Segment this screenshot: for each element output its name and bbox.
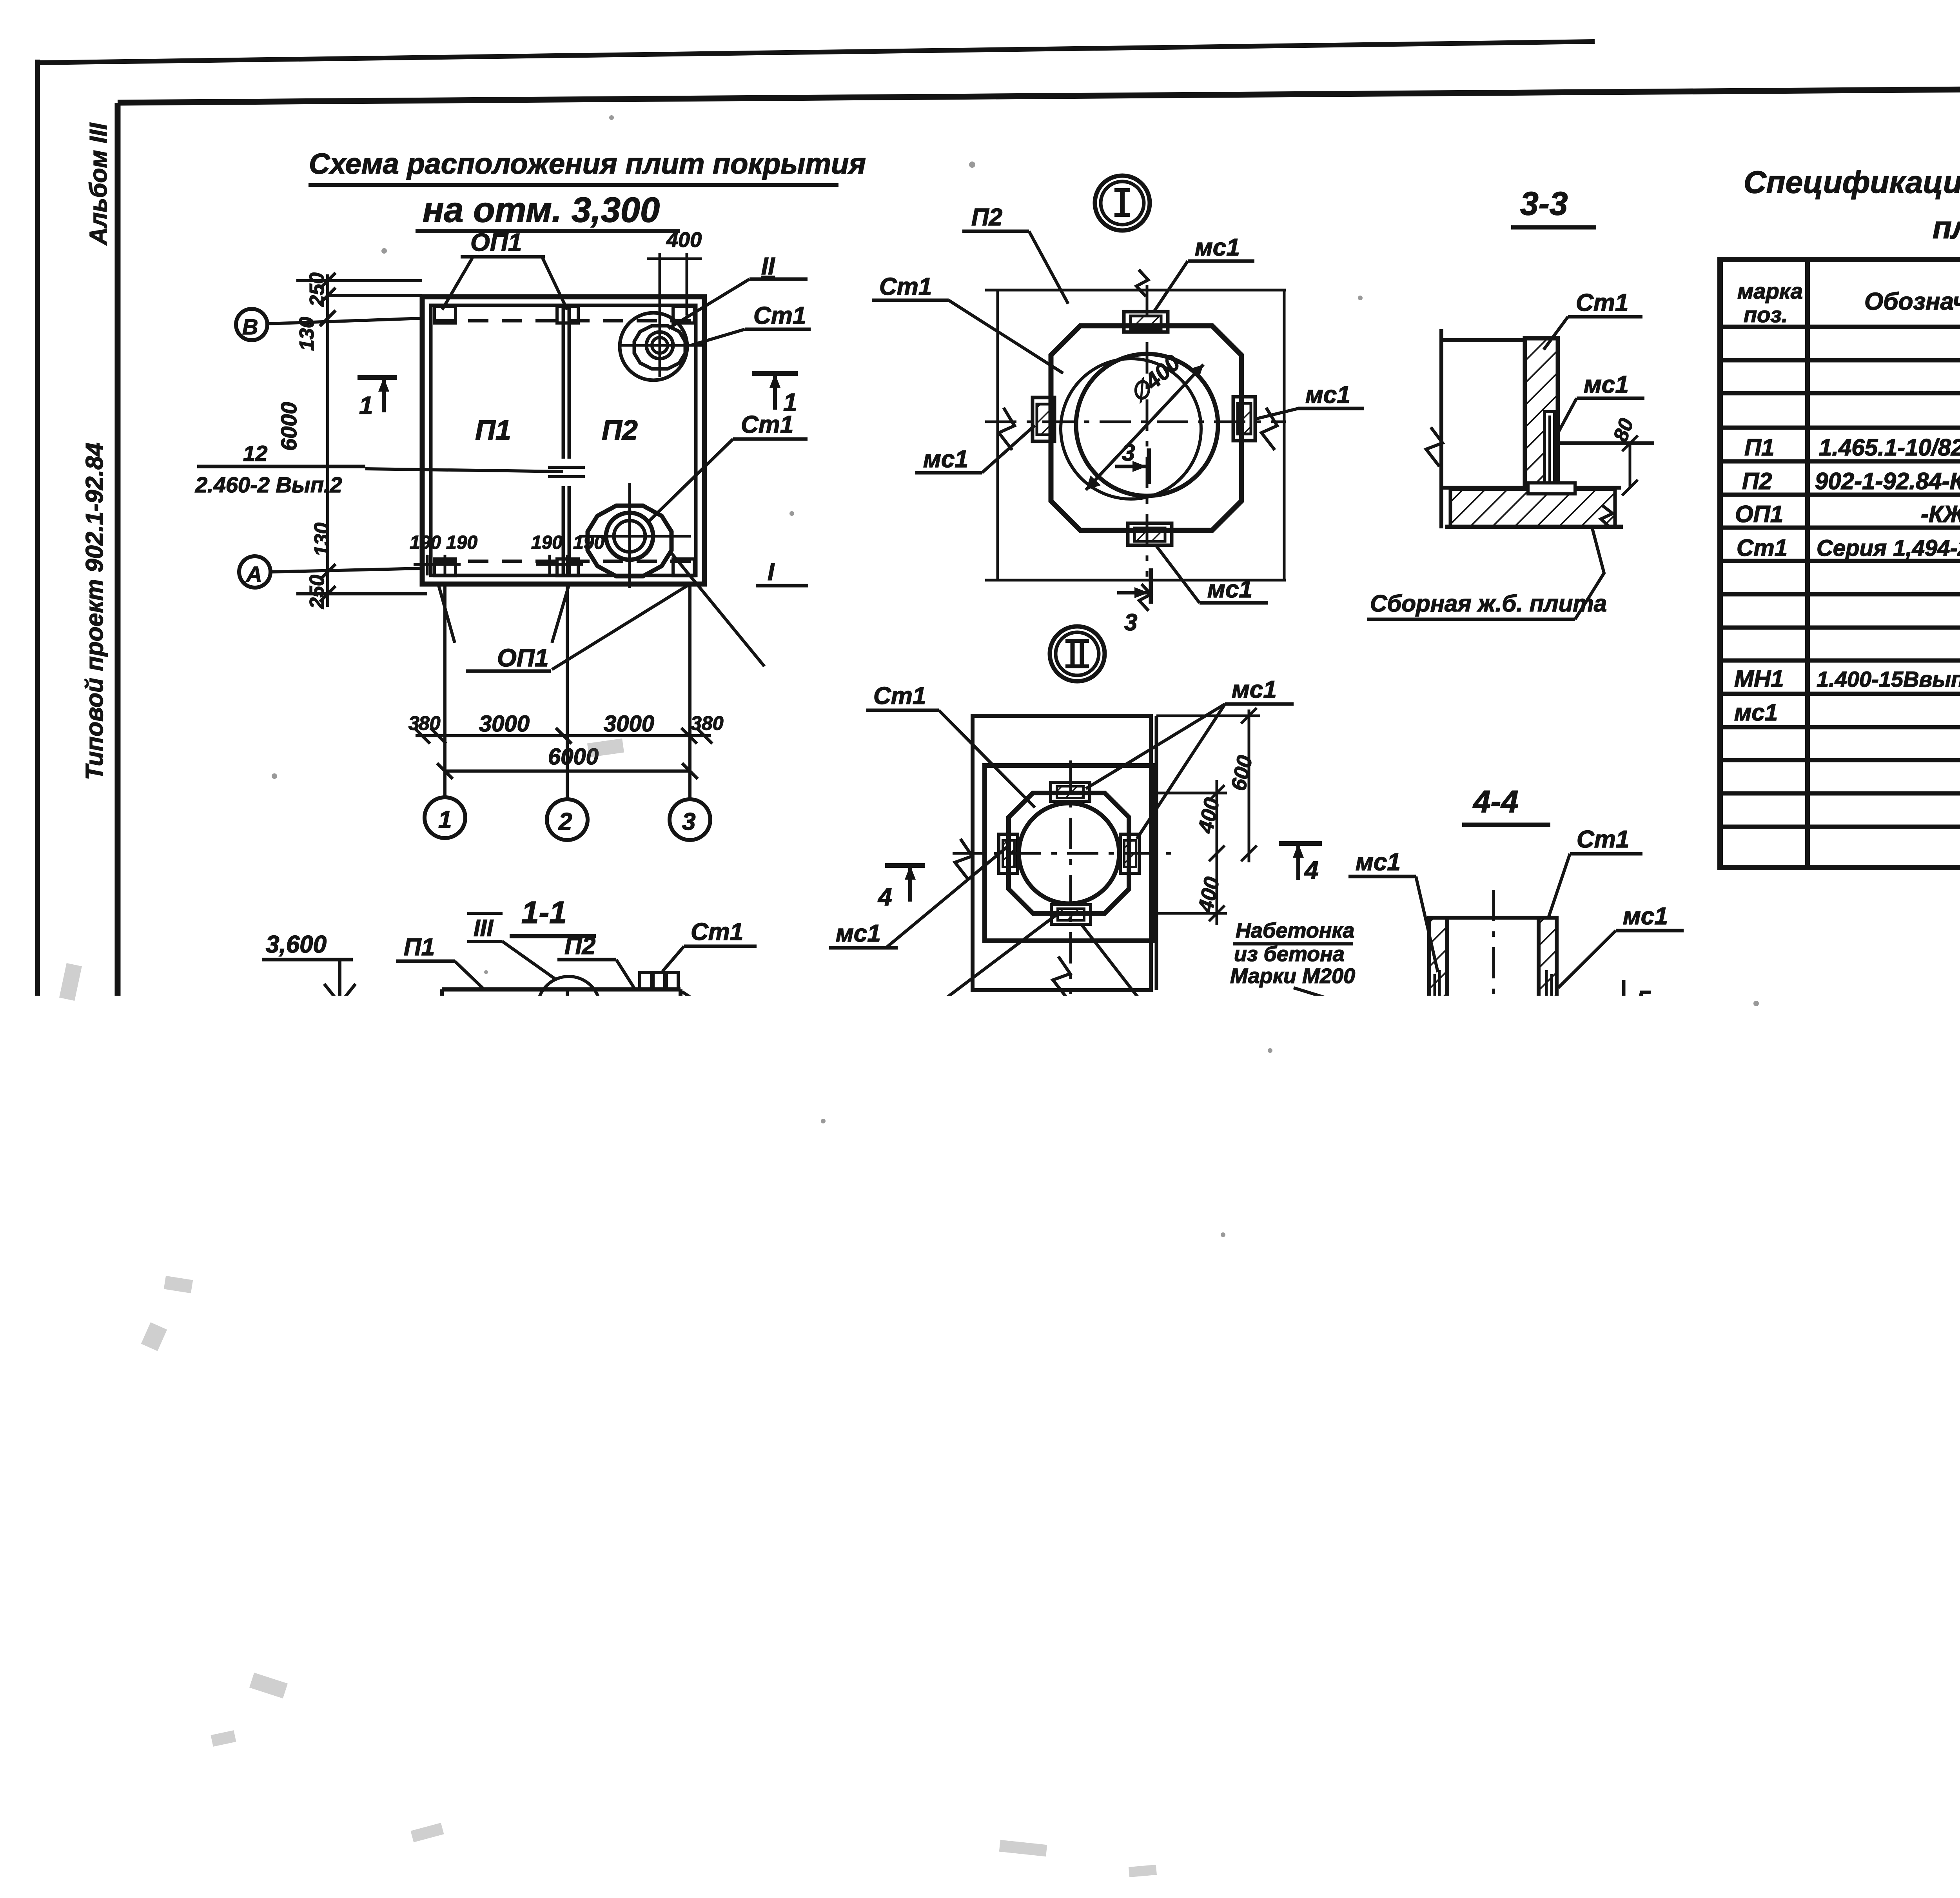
5-5 break mark	[1388, 1570, 1432, 1603]
svg-text:Ст1: Ст1	[691, 918, 743, 945]
svg-text:из бетона: из бетона	[1234, 942, 1345, 966]
III support top line	[277, 1492, 605, 1496]
svg-text:Смирнова: Смирнова	[71, 1146, 87, 1221]
1-1 joint lines	[566, 989, 569, 1055]
svg-text:мс1: мс1	[836, 920, 881, 947]
detail I section mark 3 upper	[1147, 448, 1151, 484]
axis B line	[267, 318, 422, 324]
svg-text:П1: П1	[220, 1314, 250, 1341]
svg-text:Ст1: Ст1	[1577, 826, 1629, 853]
svg-text:Ст1: Ст1	[1576, 289, 1628, 316]
svg-text:190: 190	[446, 532, 477, 553]
svg-text:20: 20	[1544, 1434, 1565, 1454]
detail II circle	[1019, 803, 1119, 904]
detail II circled mark	[1050, 626, 1105, 681]
5-5 right dims	[1609, 1401, 1612, 1581]
outer border top line	[38, 42, 1595, 63]
2-2 dash-dot diagonals in wall	[862, 1505, 941, 1560]
3-3 stakan column hatched	[1525, 338, 1558, 488]
inner frame left	[115, 103, 121, 1805]
svg-text:4: 4	[877, 883, 892, 911]
svg-text:190: 190	[361, 1655, 397, 1679]
detail II centerline vertical	[1069, 760, 1072, 994]
table outer rect	[1720, 259, 1960, 867]
left dim extension top	[296, 279, 422, 282]
svg-text:1-1: 1-1	[521, 895, 567, 930]
leaders from bottom pads down	[438, 584, 455, 643]
detail I centerline horizontal	[985, 421, 1286, 423]
svg-text:3: 3	[1124, 609, 1137, 635]
svg-text:3,600: 3,600	[266, 931, 327, 958]
2-2 dims bottom	[892, 1693, 1011, 1696]
stakan ST1 bottom-right octagon	[588, 506, 671, 576]
detail I section mark 3 lower	[1149, 568, 1153, 604]
svg-text:Инв.N°: Инв.N°	[1450, 1800, 1519, 1823]
svg-text:мс1: мс1	[1232, 676, 1277, 703]
4-4 dim 100 right	[1664, 1007, 1667, 1040]
svg-text:Обозначение: Обозначение	[1864, 288, 1960, 315]
1-1 axis circle 1	[424, 1208, 463, 1247]
svg-text:400: 400	[1351, 1313, 1388, 1337]
axis circle 1	[425, 797, 465, 838]
svg-text:Серия 1,494-24 Вып.1: Серия 1,494-24 Вып.1	[1817, 535, 1960, 561]
1-1 dim line 3000 3000	[442, 1185, 687, 1188]
bearing pad OP1 top 3	[673, 306, 694, 323]
title block verticals left section	[1793, 1593, 1797, 1825]
left dim vertical line	[326, 274, 329, 607]
5-5 embedded plate left	[1345, 1472, 1370, 1504]
1-1 axis circle 2	[552, 1209, 592, 1248]
svg-text:мс1: мс1	[1170, 1002, 1215, 1029]
2-2 axis circle V	[933, 1751, 973, 1790]
2-2 pad plate OP1	[921, 1492, 998, 1497]
5-5 centerlines	[1207, 1487, 1579, 1490]
svg-text:260: 260	[1429, 1363, 1466, 1388]
1-1 bolts mc on top right	[640, 973, 652, 989]
5-5 dim 400 400 top	[1329, 1338, 1499, 1341]
svg-text:П1: П1	[475, 415, 511, 446]
svg-text:130: 130	[296, 317, 318, 351]
III support walls	[345, 1494, 349, 1629]
svg-text:Ст1: Ст1	[753, 302, 806, 329]
svg-text:Подпись и дата: Подпись и дата	[69, 1559, 87, 1686]
svg-text:на отм. 3,300: на отм. 3,300	[423, 191, 660, 230]
stakan bottom-right crosshair	[579, 535, 691, 538]
svg-text:Ст.инж.: Ст.инж.	[1725, 1771, 1796, 1790]
table row lines	[1720, 358, 1960, 363]
svg-text:3,300: 3,300	[262, 1037, 323, 1064]
detail I plate octagon	[1051, 326, 1241, 530]
axis A line	[270, 568, 422, 572]
axis drop lines	[443, 584, 446, 797]
svg-text:из бетона марки: из бетона марки	[1049, 1656, 1249, 1682]
detail II centerline horizontal	[953, 852, 1176, 855]
3-3 pad plate under column	[1528, 483, 1575, 494]
detail II stakan square	[985, 766, 1153, 941]
svg-text:2-2: 2-2	[925, 1218, 971, 1253]
5-5 plate outline	[1327, 1352, 1331, 1581]
svg-text:П2: П2	[971, 204, 1002, 231]
svg-text:В: В	[944, 1760, 961, 1786]
inner frame bottom	[118, 1804, 1960, 1825]
2-2 slab end tick	[1109, 1355, 1112, 1409]
stakan bottom-right circles	[606, 513, 653, 560]
svg-text:1: 1	[437, 1216, 450, 1243]
bearing pad OP1 bottom 2	[557, 559, 578, 576]
detail I break marks	[999, 408, 1014, 450]
svg-text:3: 3	[678, 1216, 691, 1243]
III slab end ticks	[273, 1352, 276, 1392]
2-2 centerline	[951, 1395, 954, 1751]
3-3 topping slab right	[1558, 441, 1654, 445]
svg-text:ОП1: ОП1	[470, 228, 522, 256]
1-1 axis circle 3	[666, 1208, 705, 1247]
joint break equal marks	[548, 466, 585, 469]
svg-text:400: 400	[666, 228, 702, 252]
detail II break marks	[955, 839, 972, 880]
detail I clip bottom	[1128, 523, 1172, 545]
name rows lines	[1722, 1715, 1960, 1718]
svg-text:2.460-2 Вып.2: 2.460-2 Вып.2	[195, 472, 342, 497]
3-3 wall left line	[1439, 329, 1443, 528]
1-1 rib underside	[448, 1017, 675, 1055]
4-4 axis drop and circle 3	[1491, 1192, 1494, 1233]
svg-text:Гл.спец: Гл.спец	[1725, 1735, 1791, 1754]
svg-text:3000: 3000	[591, 1158, 643, 1184]
III dim 190 190 bottom	[349, 1681, 504, 1684]
stakan ST1 top-right octagon	[634, 326, 685, 369]
svg-text:Ст1: Ст1	[741, 411, 793, 438]
sidebar signature squiggle	[94, 1171, 118, 1215]
1-1 wall bottom line	[415, 1086, 722, 1090]
III circled mark	[400, 1297, 459, 1357]
svg-text:4-4: 4-4	[1472, 784, 1519, 819]
svg-text:ОП1: ОП1	[584, 1032, 632, 1059]
OP1 top leaders	[442, 258, 472, 310]
detail II clips	[1051, 782, 1090, 801]
axis circle 3	[670, 799, 710, 840]
4-4 centerline	[1492, 890, 1495, 1058]
inner frame top	[118, 85, 1960, 103]
svg-text:Инженер: Инженер	[1725, 1807, 1800, 1826]
bearing pad OP1 top 2	[557, 306, 578, 323]
4-4 slab hatched band	[1404, 1007, 1589, 1040]
2-2 support wall hatched	[851, 1494, 1011, 1633]
detail I clip right	[1233, 397, 1255, 441]
1-1 slab outline	[424, 989, 708, 1088]
detail II dim 400/400 right	[1216, 780, 1218, 925]
svg-text:Типовой проект 902.1-92.84: Типовой проект 902.1-92.84	[81, 443, 108, 780]
svg-text:110: 110	[1464, 1163, 1497, 1186]
svg-text:П2: П2	[1742, 468, 1772, 494]
1-1 joint circle III zone	[537, 976, 600, 1039]
svg-text:П1: П1	[404, 934, 435, 961]
4-4 slab inner void	[1466, 1009, 1525, 1038]
svg-text:130: 130	[971, 1705, 1008, 1729]
svg-text:Ст1: Ст1	[879, 273, 932, 300]
svg-text:110: 110	[1414, 1657, 1447, 1679]
svg-text:1.400-15Ввып.1 110-05: 1.400-15Ввып.1 110-05	[1817, 667, 1960, 691]
svg-text:3000: 3000	[479, 711, 530, 737]
svg-text:Спецификация к схеме располаже: Спецификация к схеме располажения	[1744, 165, 1960, 200]
svg-text:1.465.1-10/82.1-01: 1.465.1-10/82.1-01	[1819, 434, 1960, 461]
svg-text:Группа 08: Группа 08	[68, 1266, 87, 1346]
svg-text:3: 3	[682, 808, 695, 835]
4-4 dim 400 bottom	[1495, 1232, 1590, 1235]
svg-text:80: 80	[419, 712, 441, 734]
bearing pad OP1 bottom 3	[673, 559, 694, 576]
3-3 slab bottom line	[1445, 525, 1623, 529]
3-3 wall top line	[1441, 338, 1525, 342]
3-3 break mark wall	[1426, 427, 1443, 466]
5-5 embedded plate top	[1397, 1420, 1434, 1441]
svg-text:мс1: мс1	[1305, 381, 1350, 408]
4-4 stakan top lines	[1429, 916, 1557, 920]
detail II octagon	[1009, 793, 1129, 913]
section mark 1 right	[752, 371, 798, 376]
2-2 dim 320 left	[793, 1494, 796, 1584]
svg-text:ОП1: ОП1	[497, 644, 548, 672]
bottom dim line row 1	[416, 734, 711, 737]
svg-text:110: 110	[1383, 1657, 1416, 1679]
svg-text:III: III	[474, 915, 494, 941]
left dim extension bottom	[296, 592, 427, 595]
svg-text:I: I	[768, 559, 775, 586]
svg-text:190: 190	[531, 532, 563, 553]
svg-text:Власенко: Власенко	[1799, 1735, 1881, 1754]
svg-text:Ст1: Ст1	[1737, 535, 1788, 561]
svg-text:110: 110	[1507, 1163, 1540, 1186]
plan slab outer square	[422, 297, 704, 584]
plate joint double line	[562, 305, 565, 459]
hidden support dashed line top	[434, 319, 694, 323]
detail II section mark 4 left	[885, 863, 925, 868]
table header bottom	[1720, 325, 1960, 329]
1-1 slab top double line	[442, 987, 681, 992]
1-1 level mark 3.300	[298, 1029, 407, 1032]
svg-text:Инженер: Инженер	[1725, 1789, 1800, 1808]
svg-text:гост5264-80-Т1Δ6: гост5264-80-Т1Δ6	[666, 1271, 835, 1294]
svg-text:12: 12	[243, 441, 267, 466]
3-3 dim 80	[1629, 443, 1632, 488]
5-5 leader from nabetonka	[1265, 1562, 1327, 1631]
svg-text:П2: П2	[619, 1316, 650, 1343]
detail II leader from GOST label	[939, 913, 1058, 1003]
svg-text:3: 3	[691, 712, 702, 734]
table verticals	[1805, 259, 1810, 867]
svg-text:мс1: мс1	[1195, 234, 1240, 261]
svg-text:плит покрытия: плит покрытия	[1933, 210, 1960, 245]
svg-text:2,50: 2,50	[935, 1669, 978, 1693]
detail II label mc1 left (text in sec11 group)	[886, 847, 1007, 948]
3-3 slab top line	[1441, 486, 1621, 490]
5-5 dim 110 110 bottom	[1384, 1581, 1387, 1691]
svg-text:ОП1: ОП1	[810, 1393, 860, 1420]
svg-text:6000: 6000	[276, 402, 301, 451]
III support bottom line	[270, 1627, 613, 1631]
detail II plate right double line	[1155, 716, 1158, 990]
svg-text:мс1: мс1	[1584, 371, 1629, 398]
svg-text:марка: марка	[1737, 279, 1803, 303]
svg-text:40: 40	[1544, 1414, 1565, 1435]
svg-text:МН1: МН1	[1734, 666, 1784, 692]
4-4 anchor bolts	[1438, 970, 1441, 1005]
svg-text:Сокольская: Сокольская	[1799, 1717, 1901, 1736]
detail I circled mark	[1095, 176, 1150, 230]
svg-text:260: 260	[1372, 1363, 1409, 1388]
hidden support dashed line bottom	[434, 560, 694, 563]
plan slab inner square	[431, 305, 696, 575]
svg-text:Тахтамышка: Тахтамышка	[1799, 1753, 1915, 1772]
svg-text:4: 4	[1304, 856, 1319, 884]
2-2 break right	[1092, 1388, 1104, 1410]
svg-text:3: 3	[1588, 1256, 1601, 1283]
svg-text:Рук.гр.: Рук.гр.	[1725, 1753, 1784, 1772]
svg-text:мс1: мс1	[923, 446, 968, 473]
svg-text:П2: П2	[564, 933, 595, 960]
svg-text:В: В	[242, 314, 258, 339]
stakan top-right crosshair	[619, 344, 702, 347]
svg-text:II: II	[761, 253, 775, 280]
svg-text:Привязан: Привязан	[1456, 1703, 1569, 1729]
svg-text:3,600: 3,600	[1365, 1173, 1426, 1200]
svg-text:мс1: мс1	[1207, 576, 1252, 603]
detail I clip top	[1124, 312, 1168, 332]
svg-text:2: 2	[563, 1218, 577, 1245]
svg-text:320: 320	[766, 1518, 789, 1552]
detail II plate rect	[973, 716, 1151, 990]
svg-text:2: 2	[421, 1714, 435, 1741]
detail I diagonal dim line	[1086, 365, 1203, 490]
svg-text:3-3: 3-3	[1520, 185, 1568, 222]
svg-text:80: 80	[702, 712, 724, 734]
svg-text:Взам.инв.N: Взам.инв.N	[69, 1452, 87, 1541]
svg-text:75: 75	[1237, 1499, 1258, 1520]
detail I boundary thin rect	[996, 290, 999, 580]
svg-text:3: 3	[1122, 439, 1135, 466]
svg-text:Нач.отд: Нач.отд	[1725, 1698, 1797, 1718]
2-2 nabetonka step lines	[890, 1502, 894, 1584]
2-2 slab with rib	[961, 1366, 1110, 1490]
5-5 embedded plate center	[1385, 1461, 1439, 1513]
svg-text:3000: 3000	[604, 711, 654, 737]
scan noise patches	[59, 739, 1960, 1877]
detail I centerline vertical	[1146, 285, 1149, 577]
detail I second circle	[1061, 359, 1201, 499]
svg-text:Н.контр: Н.контр	[1725, 1717, 1798, 1736]
svg-text:250: 250	[884, 1705, 920, 1729]
outer border left vertical	[35, 60, 40, 1856]
svg-text:мс1: мс1	[1623, 903, 1668, 930]
axis circle 2	[547, 799, 588, 840]
III left slab	[274, 1362, 426, 1494]
svg-text:ОП1: ОП1	[1735, 501, 1783, 527]
svg-text:мн1: мн1	[1181, 1307, 1227, 1334]
bottom dim line row 2 (6000)	[445, 769, 690, 773]
1-1 break zigzag	[524, 1068, 562, 1088]
svg-text:гост 5264-80-Т1Δ6: гост 5264-80-Т1Δ6	[740, 1002, 901, 1025]
svg-text:выполнить по серии 1.465.1-: выполнить по серии 1.465.1-10/82.0-01у	[1745, 1161, 1960, 1190]
III dim 220 right	[631, 1486, 633, 1587]
1-1 drop lines to axes	[440, 1088, 443, 1207]
svg-text:Набетонка: Набетонка	[1074, 1630, 1206, 1656]
svg-text:П1: П1	[921, 1292, 952, 1319]
svg-text:5-5: 5-5	[1368, 1250, 1414, 1285]
svg-text:190: 190	[439, 1655, 475, 1679]
section mark 1 left	[358, 375, 397, 380]
4-4 left mc strip	[1373, 1007, 1404, 1023]
svg-text:П1: П1	[1744, 434, 1775, 461]
5-5 left dims	[1210, 1419, 1213, 1552]
svg-text:Согласовано: Согласовано	[43, 1238, 64, 1356]
III axis circle 2	[428, 1629, 431, 1706]
svg-text:ОП1: ОП1	[265, 1444, 315, 1471]
title block top small rows	[1722, 1611, 1960, 1614]
svg-text:Ст1: Ст1	[873, 682, 926, 709]
III pad dashes under joint	[363, 1500, 498, 1503]
4-4 stakan left wall hatched	[1429, 918, 1447, 1007]
svg-text:Инв.N2 подл: Инв.N2 подл	[69, 1707, 86, 1799]
svg-text:Мирошникова: Мирошникова	[1795, 1807, 1917, 1826]
svg-text:5: 5	[1637, 985, 1651, 1014]
svg-text:П2: П2	[602, 415, 638, 446]
svg-text:М200: М200	[1125, 1680, 1184, 1706]
1-1 right wall hatched	[682, 1018, 706, 1086]
axis circle A	[239, 556, 270, 588]
svg-text:Сборная ж.б. плита: Сборная ж.б. плита	[1370, 590, 1607, 617]
left dim ticks	[320, 273, 336, 289]
svg-text:2: 2	[313, 1265, 328, 1293]
svg-text:3: 3	[408, 712, 419, 734]
svg-text:Сухарево: Сухарево	[1799, 1789, 1881, 1808]
4-4 stakan right wall hatched	[1539, 918, 1557, 1007]
svg-text:-КЖН-ОП1: -КЖН-ОП1	[1921, 501, 1960, 527]
svg-text:2: 2	[558, 808, 572, 835]
svg-text:260: 260	[1190, 1510, 1213, 1544]
III break marks	[293, 1525, 312, 1569]
svg-text:3000: 3000	[482, 1159, 534, 1186]
svg-text:902-1-92.84-КЖН- П2: 902-1-92.84-КЖН- П2	[1815, 468, 1960, 494]
svg-text:Марки М200: Марки М200	[1230, 964, 1355, 988]
axis circle B	[236, 309, 267, 340]
5-5 embedded plate bottom	[1395, 1537, 1434, 1560]
svg-text:250: 250	[306, 575, 328, 609]
svg-text:поз.: поз.	[1744, 302, 1788, 327]
III centerline joint	[428, 1301, 431, 1496]
detail I hole circle	[1076, 354, 1218, 496]
3-3 slab body hatched	[1450, 489, 1615, 527]
svg-text:мс1: мс1	[1734, 699, 1778, 726]
svg-text:Альбом III: Альбом III	[85, 122, 112, 246]
svg-text:400: 400	[1528, 1205, 1565, 1230]
stakan ST1 top-right circles	[646, 332, 673, 359]
sidebar table horizontals	[43, 1130, 118, 1134]
svg-text:1: 1	[359, 391, 373, 419]
svg-text:220: 220	[676, 1518, 699, 1553]
2-2 break bottom	[1023, 1566, 1068, 1599]
stakan ST1 top-right: big circle	[620, 313, 687, 380]
svg-text:Набетонка: Набетонка	[1236, 919, 1354, 942]
svg-text:190: 190	[573, 532, 604, 553]
privyazan box outline	[1445, 1688, 1722, 1693]
3-3 break mark slab right	[1601, 506, 1613, 528]
svg-text:250: 250	[306, 272, 328, 307]
svg-text:А: А	[245, 562, 262, 586]
detail I clip left	[1033, 397, 1054, 441]
svg-text:МН1: МН1	[1568, 1602, 1619, 1629]
leader line from fraction into plan	[365, 469, 563, 472]
4-4 level mark 3.600	[1384, 1137, 1415, 1174]
